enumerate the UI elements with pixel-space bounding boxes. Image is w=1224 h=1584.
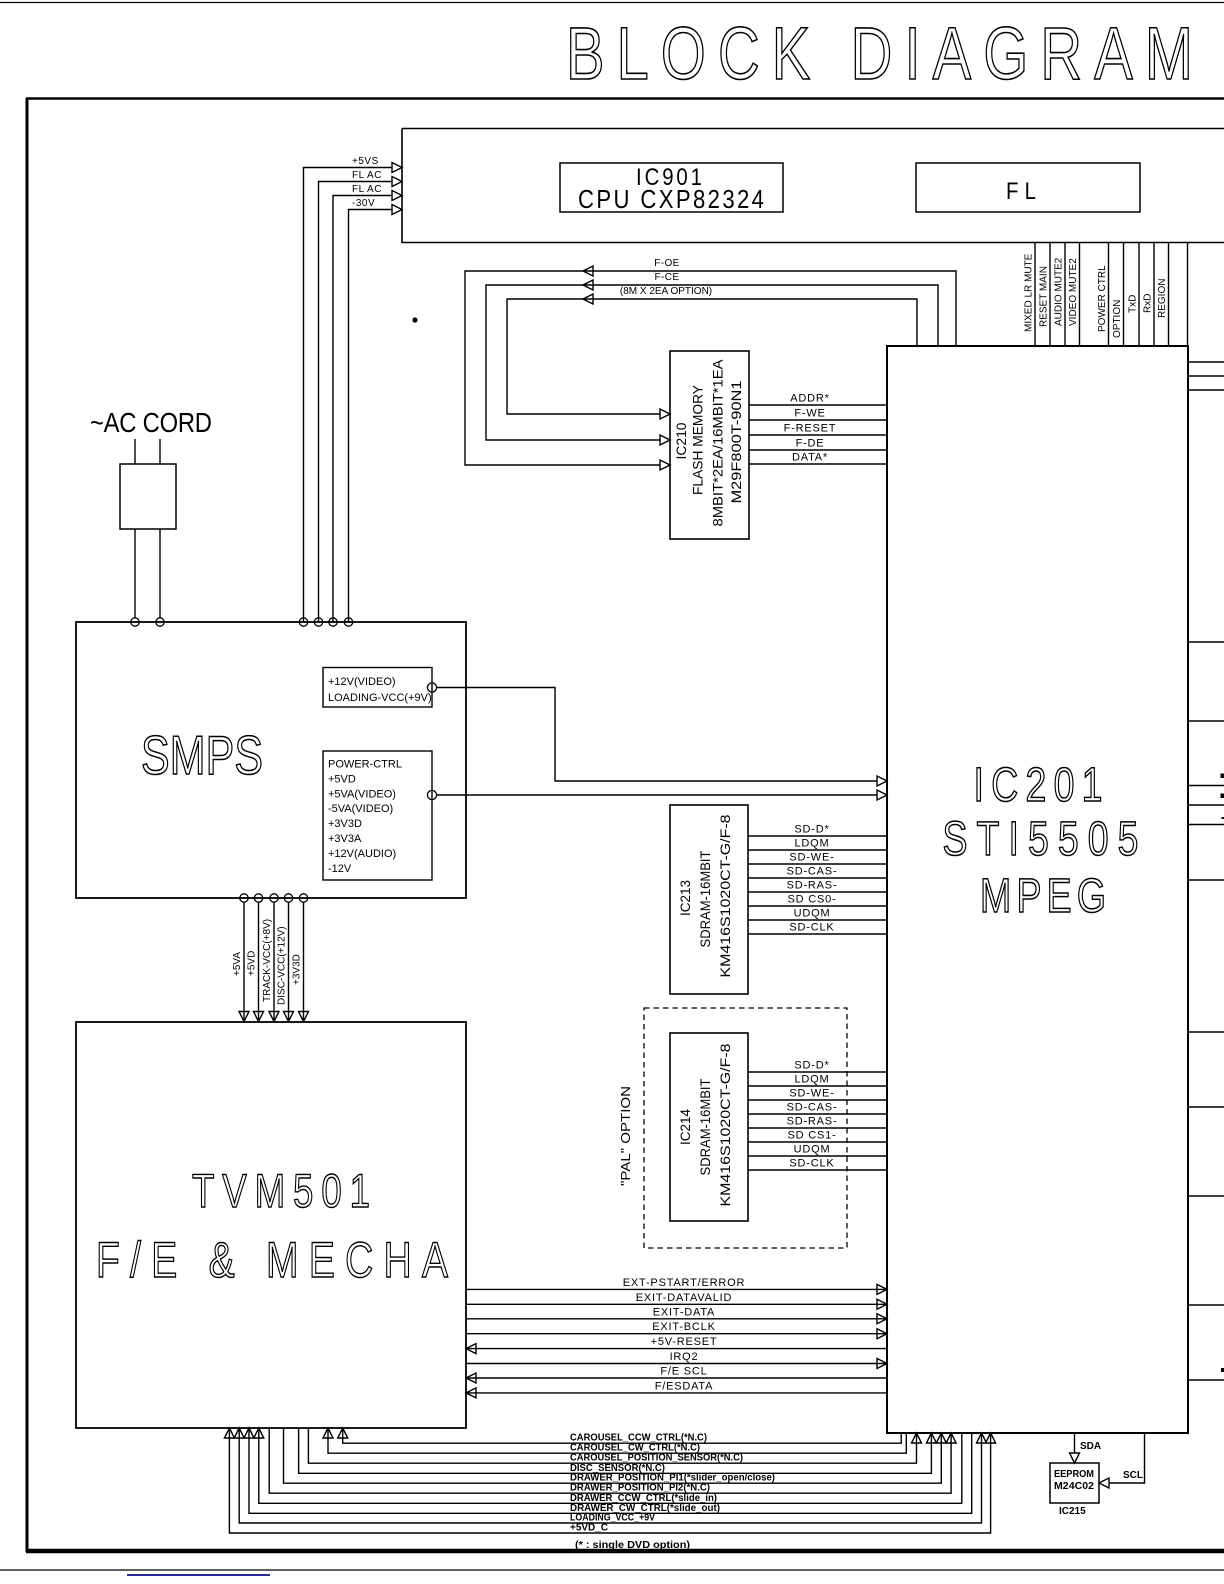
svg-text:IC210: IC210 — [673, 422, 689, 459]
net F/ESDATA wire — [466, 1380, 887, 1398]
svg-text:F/E SCL: F/E SCL — [660, 1366, 707, 1378]
SDRAM IC214 — [670, 1033, 748, 1221]
svg-text:SD-D*: SD-D* — [794, 1060, 829, 1072]
svg-text:FL AC: FL AC — [352, 170, 382, 181]
svg-text:EXIT-DATA: EXIT-DATA — [653, 1306, 715, 1318]
FL display box — [916, 163, 1140, 212]
svg-text:AUDIO MUTE2: AUDIO MUTE2 — [1054, 257, 1065, 326]
net DRAWER_CCW_CTRL(*slide_in) wire — [254, 1428, 962, 1504]
wire stub — [1188, 1031, 1224, 1033]
SMPS block — [76, 622, 466, 898]
net CAROUSEL_CCW_CTRL(*N.C) wire — [338, 1428, 902, 1444]
wire stub — [1188, 824, 1224, 826]
wire stub — [1188, 1304, 1224, 1306]
svg-text:M24C02: M24C02 — [1054, 1481, 1094, 1492]
svg-text:SD CS0-: SD CS0- — [788, 894, 837, 906]
net F-WE wire — [749, 408, 887, 421]
net 8M X 2EA OPTION wire — [507, 286, 917, 419]
net DRAWER_CW_CTRL(*slide_out) wire — [244, 1428, 972, 1514]
net VIDEO MUTE2 wire — [1068, 243, 1080, 346]
svg-text:+12V(VIDEO): +12V(VIDEO) — [328, 676, 396, 688]
net MIXED LR MUTE wire — [1024, 243, 1036, 346]
svg-text:SD-D*: SD-D* — [794, 824, 829, 836]
net ADDR* wire — [749, 393, 887, 406]
CPU board box — [402, 128, 1224, 130]
wire stub — [1188, 879, 1224, 881]
net LOADING-VCC to IC201 wire — [437, 688, 887, 787]
net -30V wire — [344, 198, 402, 626]
net +5VD wire — [247, 894, 264, 1022]
svg-text:"PAL" OPTION: "PAL" OPTION — [618, 1086, 633, 1186]
svg-text:SD-RAS-: SD-RAS- — [787, 1116, 838, 1128]
net SCL wire — [1099, 1433, 1145, 1488]
net DRAWER_POSITION_PI1(*slider_open/close) wire — [284, 1428, 947, 1484]
svg-text:SD-CAS-: SD-CAS- — [787, 866, 838, 878]
svg-text:DATA*: DATA* — [792, 452, 828, 464]
svg-text:F/ESDATA: F/ESDATA — [655, 1380, 714, 1392]
net SD-WE- (IC214) wire — [748, 1088, 887, 1101]
net UDQM (IC213) wire — [748, 908, 887, 921]
svg-text:EXIT-BCLK: EXIT-BCLK — [652, 1321, 715, 1333]
net LDQM (IC214) wire — [748, 1074, 887, 1087]
svg-text:SD-CLK: SD-CLK — [789, 1158, 834, 1170]
net SD-CAS- (IC213) wire — [748, 866, 887, 879]
svg-text:SD-CAS-: SD-CAS- — [787, 1102, 838, 1114]
net DISC_SENSOR(*N.C) wire — [299, 1428, 937, 1474]
svg-text:-12V: -12V — [328, 863, 352, 875]
svg-text:F-WE: F-WE — [794, 408, 825, 420]
net SD-RAS- (IC214) wire — [748, 1116, 887, 1129]
svg-text:POWER-CTRL: POWER-CTRL — [328, 759, 402, 771]
svg-text:-30V: -30V — [352, 198, 375, 209]
svg-text:+3V3A: +3V3A — [328, 833, 362, 845]
svg-text:TxD: TxD — [1128, 295, 1139, 313]
AC CORD connector — [90, 406, 212, 626]
svg-text:F-DE: F-DE — [796, 438, 825, 450]
node (stray dot) — [412, 317, 417, 322]
net +5VD_C wire — [224, 1428, 995, 1534]
svg-text:+5V-RESET: +5V-RESET — [651, 1336, 718, 1348]
net RxD wire — [1143, 243, 1155, 346]
svg-text:+3V3D: +3V3D — [292, 954, 303, 985]
net TRACK-VCC(+8V) wire — [262, 894, 279, 1022]
svg-text:-5VA(VIDEO): -5VA(VIDEO) — [328, 803, 393, 815]
SMPS output box +12V(VIDEO)/LOADING-VCC(+9V) — [323, 668, 437, 708]
net +5VS wire — [299, 156, 402, 626]
svg-text:IC215: IC215 — [1059, 1506, 1086, 1517]
svg-text:(8M X 2EA OPTION): (8M X 2EA OPTION) — [620, 286, 712, 297]
TVM501 F/E & MECHA block — [76, 1022, 466, 1428]
svg-text:+5VS: +5VS — [352, 156, 379, 167]
svg-text:8MBIT*2EA/16MBIT*1EA: 8MBIT*2EA/16MBIT*1EA — [710, 359, 726, 527]
svg-text:SD-WE-: SD-WE- — [789, 852, 834, 864]
cut-off text marks at page edge — [1221, 774, 1224, 779]
svg-text:SDA: SDA — [1080, 1441, 1101, 1452]
svg-text:VIDEO MUTE2: VIDEO MUTE2 — [1068, 258, 1079, 326]
net OPTION wire — [1112, 243, 1124, 346]
svg-text:+5VD: +5VD — [328, 773, 356, 785]
net CAROUSEL_POSITION_SENSOR(*N.C) wire — [308, 1428, 921, 1464]
net EXT-PSTART/ERROR wire — [466, 1277, 887, 1295]
svg-text:LDQM: LDQM — [795, 838, 830, 850]
IC201 STI5505 MPEG — [887, 346, 1188, 1433]
net SD CS0- (IC213) wire — [748, 894, 887, 907]
svg-text:IC201: IC201 — [973, 759, 1102, 813]
svg-text:EXT-PSTART/ERROR: EXT-PSTART/ERROR — [623, 1277, 745, 1289]
wire stub — [1188, 389, 1224, 391]
net F-CE wire — [486, 272, 938, 445]
net SD-CAS- (IC214) wire — [748, 1102, 887, 1115]
net F-DE wire — [749, 438, 887, 451]
svg-text:RESET MAIN: RESET MAIN — [1039, 266, 1050, 327]
svg-text:+3V3D: +3V3D — [328, 818, 362, 830]
svg-text:EEPROM: EEPROM — [1054, 1469, 1094, 1480]
svg-text:~AC CORD: ~AC CORD — [90, 406, 212, 438]
net +5V-RESET wire — [466, 1336, 887, 1354]
net LDQM (IC213) wire — [748, 838, 887, 851]
net POWER-CTRL to IC201 wire — [437, 790, 887, 800]
svg-text:FL AC: FL AC — [352, 184, 382, 195]
net SD-CLK (IC213) wire — [748, 922, 887, 935]
svg-text:+5VA: +5VA — [232, 952, 243, 976]
wire stub — [1188, 361, 1224, 363]
IC901 CPU CXP82324 — [560, 163, 783, 214]
svg-text:KM416S1020CT-G/F-8: KM416S1020CT-G/F-8 — [717, 814, 733, 977]
EEPROM IC215 M24C02 — [1050, 1463, 1099, 1517]
svg-text:IRQ2: IRQ2 — [670, 1351, 699, 1363]
svg-text:SD-RAS-: SD-RAS- — [787, 880, 838, 892]
net +3V3D wire — [292, 894, 309, 1022]
svg-text:SDRAM-16MBIT: SDRAM-16MBIT — [697, 1078, 713, 1175]
svg-text:EXIT-DATAVALID: EXIT-DATAVALID — [636, 1292, 733, 1304]
svg-text:IC213: IC213 — [677, 880, 693, 916]
wire stub — [1188, 641, 1224, 643]
wire stub — [1188, 1195, 1224, 1197]
svg-text:IC214: IC214 — [677, 1109, 693, 1145]
net F/E SCL wire — [466, 1366, 887, 1384]
svg-text:SCL: SCL — [1123, 1470, 1143, 1481]
net EXIT-BCLK wire — [466, 1321, 887, 1339]
net DISC-VCC(+12V) wire — [277, 894, 294, 1022]
wire stub — [1188, 375, 1224, 377]
svg-text:TRACK-VCC(+8V): TRACK-VCC(+8V) — [262, 919, 273, 1002]
net FL AC wire — [329, 184, 402, 626]
svg-text:SDRAM-16MBIT: SDRAM-16MBIT — [697, 850, 713, 947]
svg-text:SD CS1-: SD CS1- — [788, 1130, 837, 1142]
net EXIT-DATA wire — [466, 1306, 887, 1324]
wire stub — [1188, 1106, 1224, 1108]
net AUDIO MUTE2 wire — [1054, 243, 1066, 346]
svg-text:LDQM: LDQM — [795, 1074, 830, 1086]
net DRAWER_POSITION_PI2(*N.C) wire — [269, 1428, 956, 1494]
svg-text:(* : single DVD option): (* : single DVD option) — [575, 1540, 690, 1551]
net SD-D* (IC214) wire — [748, 1060, 887, 1073]
SMPS output box POWER-CTRL rails — [323, 751, 437, 880]
net FL AC wire — [314, 170, 402, 626]
wire CPU box to IC201 corner — [1187, 243, 1189, 346]
svg-text:+5VD_C: +5VD_C — [570, 1523, 608, 1534]
net DATA* wire — [749, 452, 887, 465]
net EXIT-DATAVALID wire — [466, 1292, 887, 1310]
net +5VA wire — [232, 894, 249, 1022]
SDRAM IC213 — [670, 805, 748, 994]
svg-text:+5VD: +5VD — [247, 951, 258, 976]
svg-text:F-OE: F-OE — [654, 258, 680, 269]
svg-text:+5VA(VIDEO): +5VA(VIDEO) — [328, 788, 396, 800]
wire stub — [1188, 720, 1224, 722]
net IRQ2 wire — [466, 1351, 887, 1369]
wire stub — [1188, 804, 1224, 806]
svg-text:SMPS: SMPS — [141, 725, 263, 786]
net F-OE wire — [465, 258, 956, 470]
net TxD wire — [1128, 243, 1140, 346]
net SD-D* (IC213) wire — [748, 824, 887, 837]
net SD-RAS- (IC213) wire — [748, 880, 887, 893]
svg-text:F-RESET: F-RESET — [784, 423, 837, 435]
title BLOCK DIAGRAM — [566, 13, 1193, 96]
svg-text:DISC-VCC(+12V): DISC-VCC(+12V) — [277, 926, 288, 1005]
net F-RESET wire — [749, 423, 887, 436]
svg-text:UDQM: UDQM — [794, 1144, 831, 1156]
wire stub — [1188, 1379, 1224, 1381]
svg-text:MIXED LR MUTE: MIXED LR MUTE — [1024, 253, 1035, 332]
net RESET MAIN wire — [1039, 243, 1051, 346]
net LOADING_VCC_+9V wire — [234, 1428, 986, 1524]
svg-text:SD-CLK: SD-CLK — [789, 922, 834, 934]
flash memory IC210 — [670, 351, 749, 539]
net UDQM (IC214) wire — [748, 1144, 887, 1157]
svg-text:M29F800T-90N1: M29F800T-90N1 — [728, 380, 744, 503]
net POWER CTRL wire — [1097, 243, 1109, 346]
net SD-CLK (IC214) wire — [748, 1158, 887, 1171]
svg-text:REGION: REGION — [1157, 279, 1168, 318]
svg-text:F-CE: F-CE — [655, 272, 680, 283]
svg-text:ADDR*: ADDR* — [790, 393, 829, 405]
net SDA wire — [1070, 1433, 1102, 1463]
net SD-WE- (IC213) wire — [748, 852, 887, 865]
svg-text:KM416S1020CT-G/F-8: KM416S1020CT-G/F-8 — [717, 1043, 733, 1206]
svg-text:UDQM: UDQM — [794, 908, 831, 920]
svg-text:LOADING-VCC(+9V): LOADING-VCC(+9V) — [328, 692, 432, 704]
PAL OPTION dashed group — [618, 1008, 847, 1248]
svg-text:+12V(AUDIO): +12V(AUDIO) — [328, 848, 396, 860]
net CAROUSEL_CW_CTRL(*N.C) wire — [323, 1428, 906, 1454]
svg-text:RxD: RxD — [1143, 294, 1154, 313]
svg-text:FLASH MEMORY: FLASH MEMORY — [690, 384, 706, 495]
net REGION wire — [1157, 243, 1169, 346]
wire stub — [1188, 785, 1224, 787]
svg-text:SD-WE-: SD-WE- — [789, 1088, 834, 1100]
svg-text:POWER CTRL: POWER CTRL — [1097, 265, 1108, 332]
net SD CS1- (IC214) wire — [748, 1130, 887, 1143]
svg-text:OPTION: OPTION — [1112, 300, 1123, 338]
